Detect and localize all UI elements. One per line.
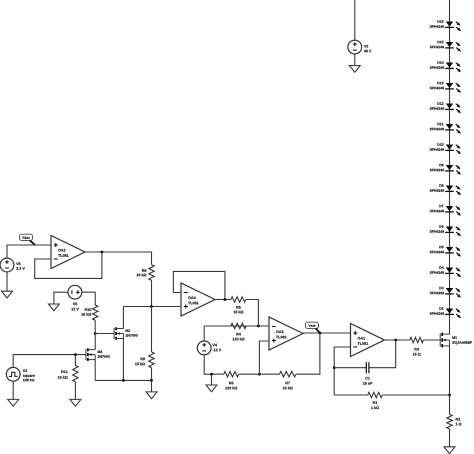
node R11 tap	[74, 353, 77, 356]
resistor R6 120 kΩ	[224, 372, 239, 377]
op-amp OA2 TL081	[51, 236, 85, 269]
node Vset junction	[319, 332, 322, 335]
wire V4 top to row C	[203, 326, 205, 341]
resistor R11 16 kΩ	[73, 365, 78, 382]
wire V6 to ground	[6, 272, 8, 292]
op-amp OA4 TL081	[181, 283, 215, 316]
LED D6 SFH4249	[446, 227, 453, 232]
wire C1 right lead to OA1 output	[369, 340, 396, 368]
wire LED chain	[449, 0, 451, 335]
op-amp OA3 TL081	[269, 317, 303, 350]
wire R1 left lead	[334, 394, 368, 396]
node M1 source / R2 / R1 junction	[448, 394, 451, 397]
wire M2 gate	[95, 333, 114, 335]
voltage source V2 square 100 Hz	[6, 367, 20, 381]
transistor M3 2N7000	[86, 348, 95, 361]
wire row F ground drop	[151, 380, 153, 392]
wire R10 to gate node	[94, 320, 96, 333]
LED D2 SFH4249	[446, 309, 453, 314]
wire M3 drain	[94, 334, 96, 350]
LED D16 SFH4249	[446, 22, 453, 27]
LED D10 SFH4249	[446, 145, 453, 150]
wire V6 to OA2 noninverting input	[7, 245, 51, 258]
wire OA4 output	[215, 299, 231, 301]
wire V3 top rail	[354, 0, 356, 41]
wire OA2 feedback loop	[35, 252, 102, 278]
LED D4 SFH4249	[446, 268, 453, 273]
wire R7 to Vset node	[296, 333, 320, 374]
ground below R9	[146, 392, 157, 399]
LED D12 SFH4249	[446, 104, 453, 109]
wire M2 source to row F	[122, 339, 124, 381]
resistor R7 16 kΩ	[279, 372, 296, 377]
wire row B M2 drain to OA4 input	[123, 306, 181, 308]
resistor R3 16 Ω	[410, 337, 424, 342]
wire R2 to ground	[449, 429, 451, 447]
LED D15 SFH4249	[446, 42, 453, 47]
wire row C to OA3 inverting input	[204, 325, 269, 327]
net label Vset	[306, 322, 319, 328]
node OA4 output junction	[224, 298, 227, 301]
wire ground drop row D	[211, 374, 213, 385]
wire V4 bottom to row D	[204, 355, 224, 375]
net label Vdac	[20, 234, 33, 240]
wire R3 to M1 gate	[423, 339, 440, 341]
ground below V6	[2, 291, 13, 298]
node M2 source on row F	[122, 379, 125, 382]
resistor R5 16 kΩ	[231, 297, 246, 302]
node C1 tap on feedback	[333, 366, 336, 369]
wire M3 source	[94, 360, 96, 381]
capacitor C1 16 nF	[366, 362, 369, 373]
LED D8 SFH4249	[446, 186, 453, 191]
wire M1 source to sense node	[449, 346, 451, 395]
wire R1 to sense node	[382, 394, 449, 396]
ground below R2	[444, 447, 455, 454]
resistor R8 16 kΩ	[149, 265, 154, 281]
ground below V4	[206, 385, 217, 392]
wire C1 left lead	[334, 367, 366, 369]
node R9 bottom on row F	[150, 379, 153, 382]
wire R5 to row C	[246, 300, 259, 327]
voltage source V3 48 V	[348, 40, 362, 54]
resistor R9 15 kΩ	[149, 352, 154, 368]
node row B junction	[150, 305, 153, 308]
wire Vset node to OA1 noninverting input	[303, 332, 351, 334]
resistor R2 1 Ω	[447, 414, 452, 429]
op-amp OA1 TL081	[351, 324, 385, 357]
transistor M2 2N7000	[114, 327, 123, 340]
LED D5 SFH4249	[446, 247, 453, 252]
node ground tap row D	[210, 373, 213, 376]
wire OA1 inverting feedback	[334, 347, 350, 395]
resistor R4 120 kΩ	[231, 323, 246, 328]
LED D14 SFH4249	[446, 63, 453, 68]
ground below R11	[70, 399, 81, 406]
wire R2 top lead	[449, 395, 451, 414]
LED D13 SFH4249	[446, 83, 453, 88]
wire OA1 output	[385, 339, 410, 341]
LED D11 SFH4249	[446, 124, 453, 129]
wire OA2 output to R8	[85, 252, 152, 265]
resistor R1 1 kΩ	[368, 392, 383, 397]
LED D3 SFH4249	[446, 288, 453, 293]
voltage source V5 12 V	[68, 285, 82, 299]
wire R9 bottom lead	[151, 368, 153, 381]
wire V2 to M3 gate	[13, 355, 86, 368]
node OA3 + / R6 R7 junction	[258, 373, 261, 376]
LED D7 SFH4249	[446, 206, 453, 211]
resistor R10 16 kΩ	[93, 305, 98, 320]
ground left of V5	[48, 304, 59, 311]
ground below V2	[8, 399, 19, 406]
node OA2 output junction	[101, 251, 104, 254]
wire V5 minus to ground	[54, 292, 68, 304]
voltage source V6 3.3 V	[0, 258, 14, 272]
wire OA3 noninverting input	[259, 341, 269, 374]
voltage source V4 -12 V	[197, 341, 211, 355]
LED D9 SFH4249	[446, 165, 453, 170]
ground below V3	[349, 66, 360, 73]
wire R8 to row B	[151, 280, 153, 306]
wire R6 to R7	[239, 373, 280, 375]
wire OA4 feedback loop	[173, 271, 225, 299]
node OA1 output junction	[394, 339, 397, 342]
node R4/R5 junction	[257, 325, 260, 328]
wire R11 to ground	[74, 382, 76, 400]
wire M2 drain to row B	[122, 307, 124, 329]
wire V2 to ground	[12, 381, 14, 400]
transistor M1 SQJA446EP	[440, 333, 449, 348]
wire R9 top lead	[151, 307, 153, 352]
wire V5 plus to R10	[82, 292, 96, 305]
wire row F	[95, 379, 151, 381]
node R10 / M2 gate / M3 drain	[94, 332, 97, 335]
wire V3 to ground	[354, 54, 356, 66]
wire R11 top lead	[74, 355, 76, 366]
